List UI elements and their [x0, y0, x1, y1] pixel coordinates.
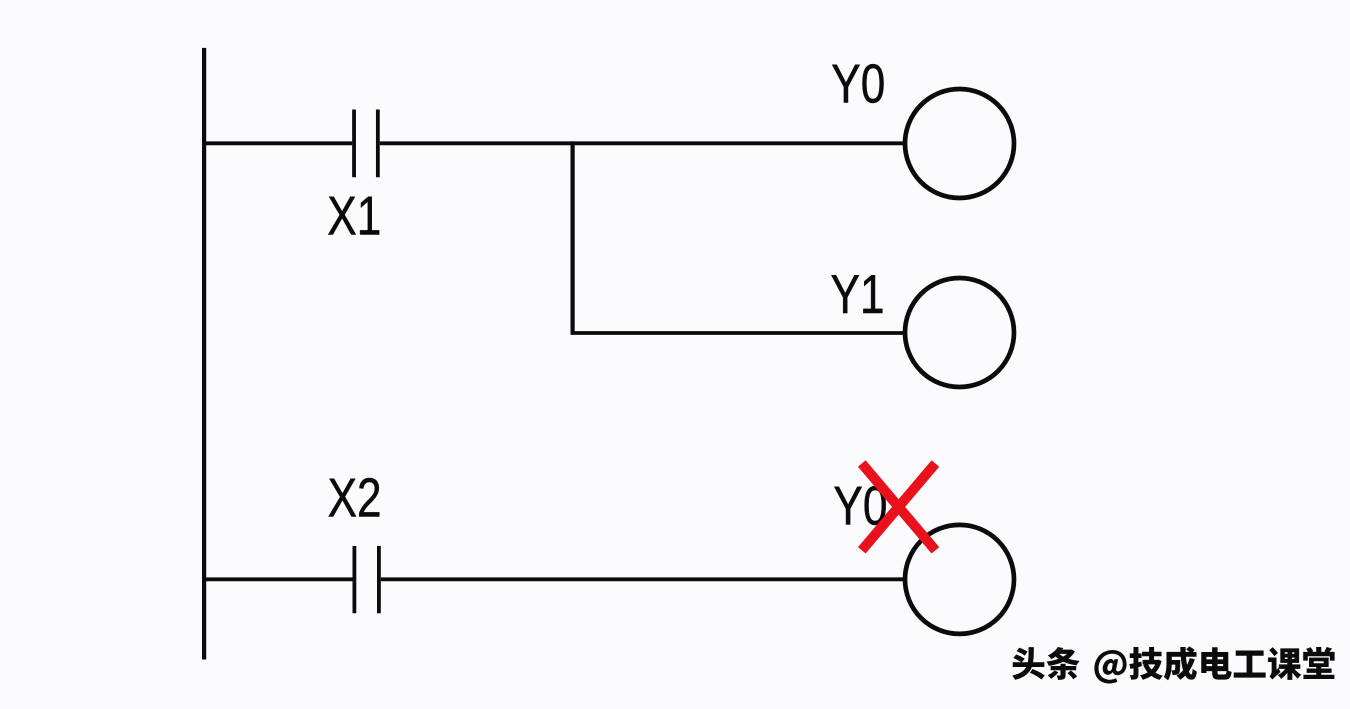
wire rung1 left segment: [202, 141, 352, 145]
coil Y1: [905, 278, 1014, 387]
svg-text:Y0: Y0: [831, 53, 885, 115]
svg-text:X2: X2: [328, 467, 382, 529]
branch horizontal wire to Y1: [571, 331, 906, 335]
wire rung1 right segment: [380, 141, 905, 145]
contact X2 right bar: [377, 546, 381, 613]
red error cross stroke 2: [862, 464, 936, 551]
contact X1 left bar: [352, 110, 356, 178]
wire rung2 left segment: [202, 577, 353, 581]
contact X1 right bar: [376, 110, 380, 178]
svg-text:Y1: Y1: [831, 263, 885, 325]
contact X2 left bar: [352, 546, 356, 613]
wire rung2 right segment: [381, 577, 905, 581]
branch vertical wire: [570, 141, 574, 333]
red error cross stroke 1: [862, 464, 936, 551]
svg-text:X1: X1: [327, 185, 381, 247]
left power rail: [202, 48, 206, 660]
watermark 头条 @技成电工课堂: [1012, 646, 1334, 683]
coil Y0: [905, 89, 1014, 198]
coil Y0 duplicate: [905, 525, 1014, 634]
